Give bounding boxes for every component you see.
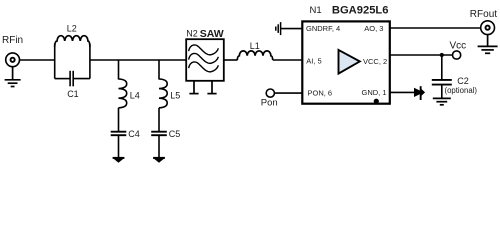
SAW wave symbol — [189, 45, 219, 72]
wire junction to C2 — [441, 55, 443, 79]
port RFin — [6, 53, 20, 67]
capacitor C5 — [151, 132, 167, 136]
svg-text:SAW: SAW — [200, 28, 224, 40]
wire SAW to L1 — [224, 59, 238, 61]
svg-text:BGA925L6: BGA925L6 — [332, 4, 389, 16]
wire VCC to Vcc port — [390, 54, 453, 56]
node tank left rail — [54, 44, 56, 79]
op-amp U1 block BGA925L6 — [302, 21, 390, 103]
ground arrow (GND,1) — [414, 86, 425, 100]
svg-text:GNDRF, 4: GNDRF, 4 — [306, 24, 340, 33]
svg-text:L4: L4 — [130, 91, 140, 101]
ground (under C2) — [433, 98, 451, 104]
wire C5 to ground — [158, 136, 160, 158]
wire C4 to ground — [118, 136, 120, 158]
svg-text:AO, 3: AO, 3 — [364, 24, 383, 33]
wire shunt branch 1 — [118, 60, 120, 80]
svg-text:C1: C1 — [67, 89, 79, 99]
wire tank to SAW — [90, 59, 187, 61]
ground arrow (C5) — [153, 157, 165, 163]
svg-text:L2: L2 — [67, 24, 77, 34]
capacitor C2 — [432, 80, 452, 85]
amplifier triangle — [339, 50, 360, 74]
ground (GNDRF, rotated) — [276, 22, 302, 35]
inductor L5 — [159, 79, 167, 108]
svg-text:C4: C4 — [128, 129, 140, 139]
svg-text:L5: L5 — [170, 91, 180, 101]
wire L5 to C5 — [158, 108, 160, 131]
svg-text:(optional): (optional) — [445, 86, 478, 95]
capacitor C4 — [111, 132, 127, 136]
inductor L1 — [237, 51, 272, 60]
svg-text:L1: L1 — [250, 41, 260, 51]
wire L1 to AI pin — [273, 59, 302, 61]
ground leg 1 (SAW) — [189, 81, 198, 94]
ground (under RFin) — [5, 67, 21, 87]
svg-text:N1: N1 — [310, 5, 322, 16]
svg-text:Vcc: Vcc — [450, 41, 467, 52]
port RFout — [481, 21, 495, 35]
wire L4 to C4 — [118, 108, 120, 131]
SAW filter N2 box — [186, 39, 224, 81]
svg-text:GND, 1: GND, 1 — [362, 88, 387, 97]
node GND pad dot — [374, 99, 379, 104]
inductor L4 — [119, 79, 127, 108]
node junction (Vcc/C2) — [440, 53, 444, 57]
ground leg 2 (SAW) — [207, 81, 216, 94]
svg-text:RFout: RFout — [470, 9, 497, 20]
svg-text:PON, 6: PON, 6 — [308, 89, 333, 98]
wire AO to RFout — [390, 27, 481, 29]
svg-text:N2: N2 — [186, 29, 198, 39]
wire RFin to tank — [20, 59, 55, 61]
wire C2 to ground — [441, 85, 443, 98]
svg-text:AI, 5: AI, 5 — [306, 56, 321, 65]
node tank right rail — [89, 44, 91, 79]
svg-text:C2: C2 — [457, 76, 469, 86]
port Vcc — [453, 51, 461, 59]
capacitor C1 — [55, 71, 90, 87]
inductor L2 — [55, 36, 90, 47]
ground (under RFout) — [478, 35, 498, 54]
svg-text:RFin: RFin — [2, 35, 23, 46]
svg-text:Pon: Pon — [261, 98, 278, 109]
wire GND pin to ground arrow — [390, 91, 416, 93]
svg-text:VCC, 2: VCC, 2 — [363, 57, 387, 66]
svg-text:C5: C5 — [169, 129, 181, 139]
wire shunt branch 2 — [158, 60, 160, 80]
ground arrow (C4) — [113, 157, 125, 163]
port Pon — [266, 89, 274, 97]
wire Pon to PON pin — [275, 92, 303, 94]
